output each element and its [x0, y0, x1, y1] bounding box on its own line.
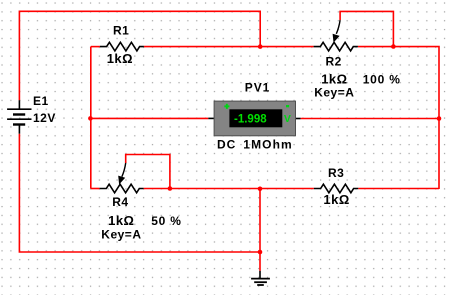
svg-text:100 %: 100 % — [363, 73, 401, 87]
svg-text:R3: R3 — [328, 166, 344, 180]
svg-text:V: V — [284, 113, 291, 125]
svg-text:Key=A: Key=A — [314, 86, 354, 100]
svg-text:12V: 12V — [33, 111, 56, 125]
svg-text:R2: R2 — [326, 55, 342, 69]
svg-text:1kΩ: 1kΩ — [108, 213, 134, 228]
svg-text:R1: R1 — [113, 24, 129, 38]
svg-text:1kΩ: 1kΩ — [323, 192, 349, 207]
svg-text:1kΩ: 1kΩ — [107, 51, 133, 66]
svg-text:-1.998: -1.998 — [234, 114, 267, 126]
svg-text:R4: R4 — [112, 195, 128, 209]
svg-text:50 %: 50 % — [151, 214, 182, 228]
svg-text:DC: DC — [217, 138, 236, 152]
svg-text:1MOhm: 1MOhm — [243, 138, 293, 152]
svg-text:Key=A: Key=A — [101, 228, 141, 242]
svg-text:E1: E1 — [33, 94, 49, 108]
svg-text:1kΩ: 1kΩ — [321, 72, 347, 87]
svg-text:PV1: PV1 — [245, 81, 270, 95]
